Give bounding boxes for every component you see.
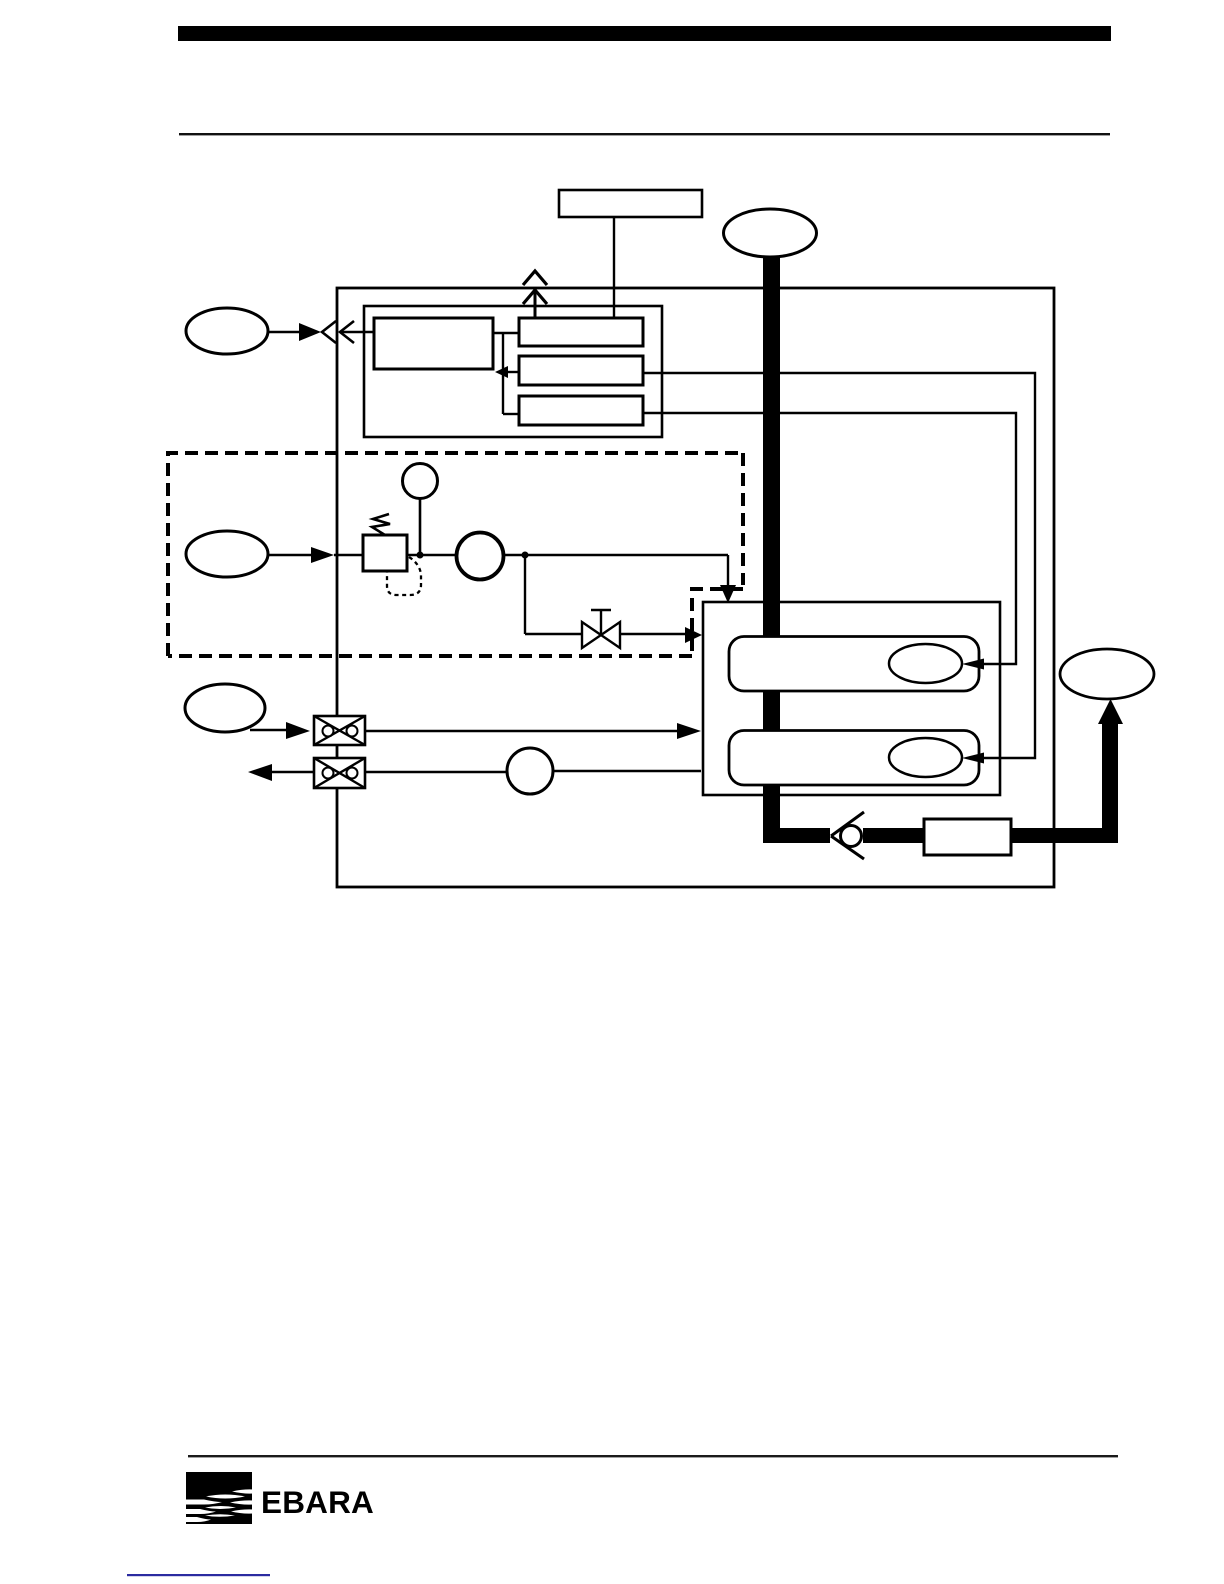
arrow: bypass into burner box: [685, 627, 702, 643]
wire: into controller: [340, 331, 374, 333]
chevron: connector outside: [322, 321, 336, 343]
check valve arms: [831, 812, 864, 836]
vent chevron lower: [523, 290, 547, 304]
circle: gauge above regulator: [403, 464, 438, 499]
arrow: gas supply head: [311, 547, 334, 563]
wire: gas line to main drop: [504, 554, 728, 556]
check valve circle: [841, 826, 862, 847]
arrow: into lower burner ellipse: [962, 753, 984, 764]
footer rule: [188, 1455, 1118, 1457]
thick pipe: main vertical drop: [763, 255, 780, 836]
solenoid valve lower: [314, 758, 365, 788]
wire: return line exits left: [271, 771, 314, 774]
wire: pilot arrow line: [250, 729, 287, 732]
arrow: pilot head: [286, 722, 310, 739]
dashed gas train box: bottom edge: [168, 654, 692, 658]
rect: controller: [374, 318, 493, 369]
chevron: connector inside arrowhead: [340, 321, 354, 343]
burner tube upper: [729, 637, 979, 692]
ellipse: gas supply label: [186, 531, 268, 577]
node: junction at regulator outlet: [417, 552, 424, 559]
dashed gas train box: notch: [692, 589, 743, 656]
ellipse: upper burner: [889, 644, 962, 683]
arrow: return exit head: [248, 764, 272, 781]
wire: regulator to gauge circle: [407, 554, 457, 556]
flow element on pipe: [924, 819, 1011, 855]
wire: gas line into regulator: [334, 554, 363, 556]
outer enclosure box: [337, 288, 1054, 887]
regulator spring zigzag: [372, 514, 390, 535]
wire: down to burner box: [727, 555, 729, 586]
globe valve stem T: [600, 611, 602, 634]
wire: return line from burner box: [365, 771, 507, 773]
circle: gauge on gas line: [457, 533, 504, 580]
dashed gas train box: right edge: [741, 453, 745, 585]
ellipse: right outlet label: [1060, 649, 1154, 699]
ellipse: lower burner: [889, 738, 962, 777]
wire: power arrow line: [268, 331, 300, 334]
burner tube lower: [729, 731, 979, 786]
wire: bus to relay3: [503, 413, 519, 415]
rect: relay 2: [519, 356, 643, 385]
wire: bypass horizontal: [525, 633, 582, 635]
wire: gas supply arrow line: [268, 554, 312, 557]
wire: bypass down: [524, 555, 526, 634]
vent arrow line above relay1: [534, 289, 537, 318]
wire: controller to relay1: [493, 332, 519, 334]
node: junction at bypass: [522, 552, 529, 559]
wire: pilot line to burner box: [365, 730, 678, 732]
footer blue underline: [127, 1574, 270, 1576]
solenoid valve upper: [314, 716, 365, 745]
rect: relay 3: [519, 396, 643, 425]
ellipse: power source label: [186, 308, 268, 354]
wire: top box down to relay block: [613, 217, 615, 318]
dashed gas train box: left and top: [168, 453, 744, 656]
rect: relay 1: [519, 318, 643, 346]
wire: vertical bus left of relays: [502, 333, 504, 414]
check valve white gap: [830, 827, 863, 844]
svg-text:EBARA: EBARA: [261, 1484, 374, 1520]
circle: device on return line: [507, 748, 553, 794]
ellipse: pilot gas label: [185, 684, 265, 732]
thick pipe: bottom horizontal run: [763, 828, 1118, 843]
top title bar: [178, 26, 1111, 41]
vent chevron upper: [523, 271, 547, 285]
regulator dotted feedback loop: [387, 557, 421, 595]
arrow: power filled head: [299, 323, 321, 341]
wire: relay2 to bus with arrow: [503, 371, 519, 373]
arrow: riser up arrowhead: [1098, 699, 1123, 724]
EBARA logo mark: [183, 1472, 253, 1524]
arrow: into burner box top: [720, 585, 736, 603]
wire: return line right part: [553, 770, 701, 772]
thick pipe: right riser: [1102, 722, 1118, 843]
box: top label rectangle: [559, 190, 702, 217]
burner box: [703, 602, 1000, 795]
ellipse: top pipe label: [724, 209, 817, 257]
control panel inner box: [364, 306, 662, 437]
wire: relay3 to upper burner ellipse: [643, 413, 1016, 664]
arrow: into bus: [495, 366, 508, 378]
globe valve body: [582, 622, 620, 648]
wire: gauge stem: [419, 499, 422, 555]
wire: relay2 to lower burner ellipse: [643, 373, 1035, 758]
regulator body: [363, 535, 407, 571]
arrow: into upper burner ellipse: [962, 659, 984, 670]
wire: bypass to burner box: [620, 633, 686, 635]
header rule: [179, 133, 1110, 135]
arrow: pilot into burner box: [677, 723, 701, 739]
